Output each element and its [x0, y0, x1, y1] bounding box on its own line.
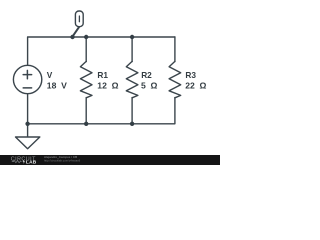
svg-text:R3: R3 — [185, 70, 196, 80]
CircuitLab logo bolt — [23, 160, 25, 164]
svg-text:12 Ω: 12 Ω — [97, 81, 118, 91]
switch SW1 lever — [73, 27, 80, 37]
svg-text:R1: R1 — [97, 70, 108, 80]
node: ground junction — [25, 122, 29, 126]
wire R1 top lead — [85, 37, 87, 62]
svg-text:R2: R2 — [141, 70, 152, 80]
svg-text:22 Ω: 22 Ω — [185, 81, 206, 91]
switch SW1 handle — [75, 11, 83, 27]
node: R2 top junction — [130, 35, 134, 39]
voltage source V circle — [13, 65, 41, 93]
node: R1 bottom junction — [84, 122, 88, 126]
junction dots — [25, 35, 134, 126]
wire R3 column — [174, 37, 176, 62]
resistor R1 — [80, 61, 92, 97]
resistor R3 — [169, 61, 181, 97]
labels — [47, 70, 207, 91]
voltage source plus sign — [23, 74, 31, 76]
voltage source minus sign — [23, 87, 31, 89]
svg-text:V: V — [47, 70, 53, 80]
ground — [27, 124, 29, 137]
svg-text:LAB: LAB — [26, 160, 37, 165]
node: R1 top junction — [84, 35, 88, 39]
CircuitLab logo zigzag — [12, 161, 22, 163]
wire R2 top lead — [131, 37, 133, 62]
svg-text:18 V: 18 V — [47, 81, 67, 91]
node: R2 bottom junction — [130, 122, 134, 126]
wire R1 bottom lead — [85, 98, 87, 124]
wire R2 bottom lead — [131, 98, 133, 124]
node: switch pivot on top wire — [70, 35, 74, 39]
svg-text:http://circuitlab.com/c4maax9: http://circuitlab.com/c4maax9 — [44, 159, 81, 163]
resistor R2 — [126, 61, 138, 97]
watermark bar — [0, 155, 220, 165]
wire bottom horizontal — [28, 94, 175, 124]
wire top horizontal — [28, 37, 175, 65]
svg-text:5 Ω: 5 Ω — [141, 81, 158, 91]
